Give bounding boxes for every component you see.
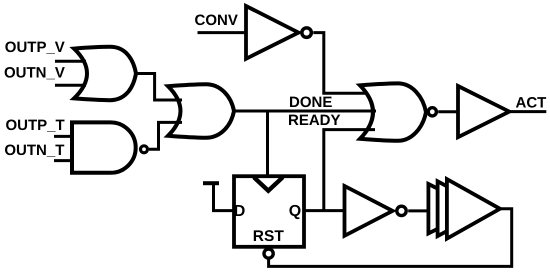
buffer U6 (ACT driver) [458, 86, 509, 137]
wire U2 output to U3 bottom input [149, 122, 182, 149]
delay buffer U9a [428, 184, 478, 233]
delay buffer U9b [438, 181, 489, 236]
tie-high bar at D input [203, 181, 219, 185]
svg-text:D: D [234, 203, 246, 220]
nand-gate U2 (test outputs) [72, 122, 136, 172]
svg-text:OUTP_V: OUTP_V [5, 39, 65, 56]
wire OUTP_T input [54, 135, 74, 138]
wire CONV input [198, 31, 247, 34]
wire delay output down and back to RST bubble [269, 209, 512, 267]
clock chevron of U7 [254, 177, 283, 191]
svg-text:ACT: ACT [516, 94, 547, 111]
inverter U8 (after Q) [345, 186, 393, 236]
wire DONE (U3 output to U5 middle input) [234, 110, 376, 113]
svg-text:OUTP_T: OUTP_T [6, 117, 65, 134]
wire U1 output to U3 top input [136, 74, 182, 101]
wire ACT output [509, 110, 546, 113]
bubble of nor U5 [428, 108, 436, 116]
bubble of RST pin [264, 249, 273, 258]
wire Q output [304, 209, 345, 212]
or-gate U1 (valid comparator outputs) [74, 47, 136, 100]
svg-text:RST: RST [253, 228, 285, 245]
svg-text:DONE: DONE [289, 94, 332, 111]
wire U8 output to delay chain [408, 209, 428, 212]
flip-flop U7 body [234, 176, 304, 247]
svg-text:Q: Q [289, 203, 301, 220]
bubble of inverter U4 [302, 28, 312, 38]
wire D input [214, 183, 235, 210]
svg-text:OUTN_T: OUTN_T [4, 142, 64, 159]
bubble of inverter U8 [397, 206, 406, 215]
wire clock tee down to flip-flop [266, 111, 269, 176]
svg-text:CONV: CONV [195, 12, 238, 29]
inverter U4 (CONV) [246, 6, 299, 59]
svg-text:READY: READY [288, 112, 341, 129]
wire READY (from Q up to U5 bottom input) [324, 130, 375, 211]
bubble of nand U2 [141, 146, 148, 153]
wire OUTP_V input [55, 60, 86, 63]
delay buffer U9c [447, 179, 500, 239]
wire OUTN_T input [54, 159, 74, 162]
or-gate U3 (middle combiner) [168, 84, 234, 138]
wire OUTN_V input [55, 84, 86, 87]
wire U4 output down to U5 top input [313, 33, 375, 94]
svg-text:OUTN_V: OUTN_V [4, 65, 65, 82]
nor-gate U5 [360, 83, 426, 140]
wire U5 output [438, 110, 458, 113]
